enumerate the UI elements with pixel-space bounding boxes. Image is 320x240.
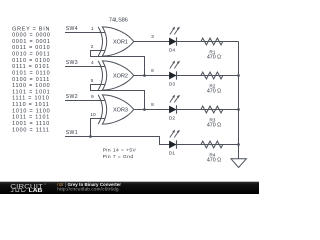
svg-text:1001 = 1110: 1001 = 1110 — [12, 121, 50, 127]
svg-text:4: 4 — [91, 60, 94, 66]
svg-text:1110 = 1011: 1110 = 1011 — [12, 102, 50, 108]
svg-text:XOR3: XOR3 — [113, 108, 128, 114]
svg-text:SW1: SW1 — [66, 130, 78, 136]
svg-text:470 Ω: 470 Ω — [207, 55, 221, 61]
svg-text:470 Ω: 470 Ω — [207, 123, 221, 129]
svg-text:74LS86: 74LS86 — [109, 17, 128, 23]
svg-text:1101 = 1001: 1101 = 1001 — [12, 89, 50, 95]
svg-text:D2: D2 — [169, 115, 175, 121]
svg-text:1010 = 1100: 1010 = 1100 — [12, 108, 50, 114]
svg-text:™: ™ — [44, 184, 47, 187]
svg-text:470 Ω: 470 Ω — [207, 89, 221, 95]
svg-text:SW3: SW3 — [66, 60, 78, 66]
svg-text:SW2: SW2 — [66, 94, 78, 100]
svg-text:470 Ω: 470 Ω — [207, 158, 221, 164]
svg-text:D3: D3 — [169, 81, 175, 87]
svg-text:9: 9 — [91, 94, 94, 100]
svg-text:0100 = 0111: 0100 = 0111 — [12, 77, 50, 83]
svg-text:1100 = 1000: 1100 = 1000 — [12, 83, 50, 89]
svg-text:0000 = 0000: 0000 = 0000 — [12, 33, 51, 39]
svg-text:3: 3 — [151, 34, 154, 40]
svg-text:8: 8 — [151, 102, 154, 108]
svg-text:1111 = 1010: 1111 = 1010 — [12, 96, 50, 102]
svg-text:0101 = 0110: 0101 = 0110 — [12, 70, 50, 76]
svg-text:0011 = 0010: 0011 = 0010 — [12, 45, 50, 51]
svg-text:LAB: LAB — [29, 188, 43, 194]
svg-text:Pin 7 = Gnd: Pin 7 = Gnd — [103, 154, 134, 160]
svg-text:0010 = 0011: 0010 = 0011 — [12, 52, 50, 58]
svg-text:SW4: SW4 — [66, 26, 78, 32]
svg-text:5: 5 — [91, 78, 94, 84]
svg-text:D1: D1 — [169, 150, 175, 156]
svg-text:0001 = 0001: 0001 = 0001 — [12, 39, 51, 45]
svg-text:GREY = BIN: GREY = BIN — [12, 26, 50, 32]
svg-text:0110 = 0100: 0110 = 0100 — [12, 58, 50, 64]
svg-text:1000 = 1111: 1000 = 1111 — [12, 127, 50, 133]
svg-text:XOR1: XOR1 — [113, 40, 128, 46]
svg-text:0111 = 0101: 0111 = 0101 — [12, 64, 50, 70]
svg-text:XOR2: XOR2 — [113, 74, 128, 80]
svg-text:2: 2 — [91, 44, 94, 50]
svg-text:6: 6 — [151, 68, 154, 74]
svg-text:1: 1 — [91, 26, 94, 32]
svg-text:http://circuitlab.com/c6tr6dg: http://circuitlab.com/c6tr6dg — [57, 187, 119, 192]
svg-text:Pin 14 = +5V: Pin 14 = +5V — [103, 147, 137, 153]
svg-text:D4: D4 — [169, 47, 175, 53]
svg-text:1011 = 1101: 1011 = 1101 — [12, 115, 50, 121]
svg-text:10: 10 — [90, 112, 96, 118]
